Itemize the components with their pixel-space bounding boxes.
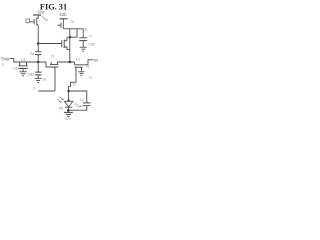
wire: bias line xyxy=(38,90,55,92)
photodiode PD xyxy=(64,101,73,107)
wire: node B down to Cd1 xyxy=(37,62,39,72)
ground (under Cd2) xyxy=(80,47,87,51)
svg-text:Tc: Tc xyxy=(51,55,55,59)
svg-text:52e: 52e xyxy=(65,117,71,120)
wire: node D to Cpd branch xyxy=(69,91,87,103)
gate signal label (phi) xyxy=(26,19,30,23)
wire: input to node B xyxy=(10,59,47,62)
svg-text:D1: D1 xyxy=(21,58,25,62)
svg-text:Cp: Cp xyxy=(80,98,84,102)
svg-text:5a: 5a xyxy=(43,78,47,82)
capacitor Cb plates xyxy=(18,66,27,69)
svg-text:5d: 5d xyxy=(89,76,93,80)
wire: node A to gate of Trc2 xyxy=(38,43,62,45)
svg-text:Cd2: Cd2 xyxy=(88,43,94,47)
svg-text:Ta: Ta xyxy=(44,18,48,22)
gate lead of Tra xyxy=(30,21,34,23)
wire: gate lead to OUT xyxy=(83,60,94,65)
wire: Cd2 to ground xyxy=(82,41,84,48)
svg-text:PD: PD xyxy=(59,106,64,110)
wire: Trc to node C and beyond xyxy=(57,61,74,63)
svg-text:Td: Td xyxy=(86,65,90,69)
wire: Cb to ground xyxy=(22,68,24,71)
gate lead of Trb xyxy=(57,24,61,26)
wire: Trd drain staircase down to node D xyxy=(69,72,76,92)
svg-text:5c: 5c xyxy=(84,28,88,32)
wire: node F to ground xyxy=(67,110,69,112)
svg-text:Ca: Ca xyxy=(30,52,35,56)
ground (under Cb) xyxy=(19,72,27,76)
node D junction dot xyxy=(67,90,70,93)
transistor Trc (series on bus) xyxy=(50,62,58,67)
wire: Cpd return to node F xyxy=(68,106,87,111)
transistor Trd xyxy=(75,65,83,72)
wire: Trc gate down to bias line xyxy=(54,67,56,91)
wire: node C step to Trd gate xyxy=(74,62,76,65)
node A junction dot xyxy=(37,42,40,45)
wire: node B step to Trc gate xyxy=(46,62,50,67)
transistor Trb xyxy=(61,19,63,29)
supply bar 52a (left) xyxy=(33,14,41,16)
svg-text:b: b xyxy=(33,87,35,91)
svg-text:TMa: TMa xyxy=(1,57,10,62)
svg-text:5d: 5d xyxy=(94,59,98,63)
svg-text:Cb: Cb xyxy=(13,67,17,71)
lead line to 52a xyxy=(42,16,46,20)
wire: node A down to Ca xyxy=(37,44,39,52)
svg-text:Cd1: Cd1 xyxy=(28,72,35,76)
node E junction dot xyxy=(68,99,70,101)
svg-text:c2: c2 xyxy=(89,34,93,38)
wire: photodiode to node F xyxy=(68,107,70,110)
wire: rail down to Cd2 xyxy=(82,29,84,38)
transistor Tra xyxy=(34,15,38,26)
node C junction dot xyxy=(69,61,72,64)
svg-text:Tb: Tb xyxy=(70,20,74,24)
capacitor Ca xyxy=(35,52,41,55)
svg-text:52a: 52a xyxy=(38,10,46,15)
svg-text:52b: 52b xyxy=(60,12,68,17)
capacitor Cd2 xyxy=(79,38,87,41)
transistor Trc2 (mid, gate from node A) xyxy=(62,37,70,49)
wire: node P to Cd2 branch xyxy=(70,29,77,37)
svg-text:5e: 5e xyxy=(73,82,77,86)
node F junction dot xyxy=(67,109,70,112)
ground (under Trd source) xyxy=(78,72,84,76)
wire: Cd1 to ground xyxy=(37,75,39,78)
transistor/capacitor Cb stubs xyxy=(20,62,27,66)
wire: Trb drain rail xyxy=(63,28,83,30)
capacitor Cd1 xyxy=(35,72,41,75)
wire: Trc2 drain to node P xyxy=(67,36,70,38)
wire: main vertical from drain rail to node C xyxy=(69,29,71,62)
wire: Ca to node B xyxy=(37,55,39,62)
light arrow 2 xyxy=(58,99,62,102)
svg-text:Td: Td xyxy=(76,57,80,61)
node P junction dot xyxy=(69,36,72,39)
node B junction dot xyxy=(37,61,40,64)
svg-text:D: D xyxy=(2,63,5,67)
ground (main, under photodiode) xyxy=(64,112,73,116)
capacitor Cpd xyxy=(83,103,91,106)
ground (under Cd1) xyxy=(35,78,42,82)
light arrow 1 xyxy=(60,97,64,100)
svg-text:51: 51 xyxy=(74,102,78,106)
wire: node D down to photodiode xyxy=(68,91,70,100)
supply bar 52b (right) xyxy=(60,18,68,20)
wire: Tra source down to node A xyxy=(37,25,39,44)
